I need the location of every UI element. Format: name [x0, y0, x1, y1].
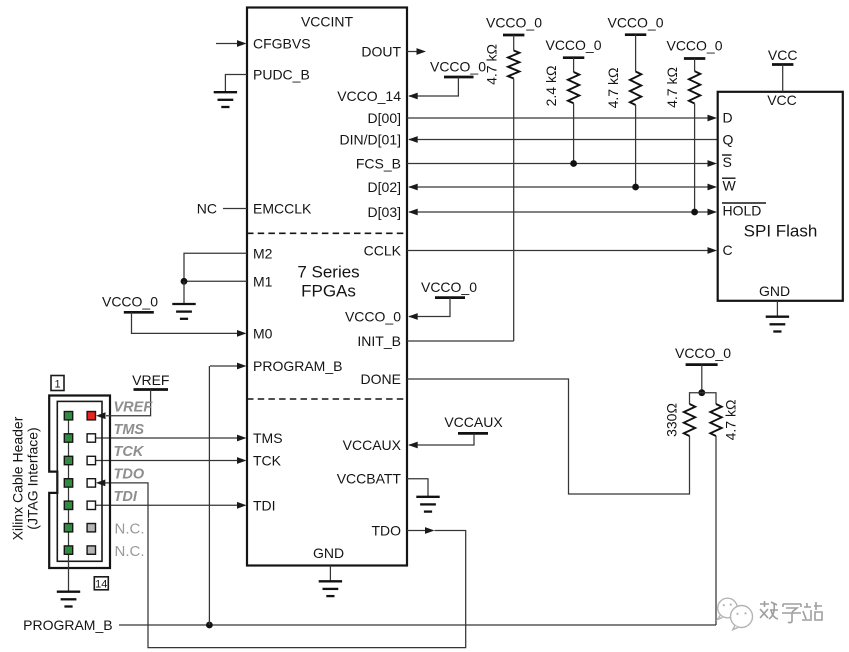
wire FCS_B	[356, 156, 717, 172]
header pin square left row 6	[64, 524, 72, 532]
SPI Flash U2 box	[718, 92, 843, 301]
svg-text:C: C	[723, 242, 733, 258]
svg-text:W: W	[723, 177, 737, 193]
supply VCC	[768, 47, 798, 92]
header pin square left row 7	[64, 546, 72, 554]
JTAG header inner box	[57, 401, 102, 561]
svg-text:VCCO_0: VCCO_0	[545, 37, 601, 53]
svg-text:M0: M0	[253, 325, 273, 341]
ground at JTAG header	[57, 592, 80, 607]
svg-text:M2: M2	[253, 245, 273, 261]
header pin square right row 6	[87, 524, 95, 532]
svg-text:VCCO_0: VCCO_0	[102, 294, 158, 310]
wire R2 to FCS_B	[573, 103, 575, 163]
svg-text:TDO: TDO	[114, 467, 145, 483]
pin GND of FPGA	[313, 545, 344, 581]
svg-text:VCCO_0: VCCO_0	[421, 279, 477, 295]
header pin square left row 5	[64, 501, 72, 509]
svg-text:TCK: TCK	[253, 453, 282, 469]
svg-text:HOLD: HOLD	[723, 202, 762, 218]
pin S with overline	[722, 154, 732, 170]
ground at VCCBATT	[416, 497, 439, 512]
svg-text:2.4 kΩ: 2.4 kΩ	[543, 66, 559, 107]
wire split to resistors	[690, 393, 717, 404]
svg-text:VCCO_0: VCCO_0	[607, 15, 663, 31]
svg-text:TMS: TMS	[253, 430, 283, 446]
svg-text:FPGAs: FPGAs	[301, 282, 356, 301]
wire R3 to D[02]	[635, 105, 637, 187]
watermark wechat icon	[718, 598, 753, 630]
svg-text:VCC: VCC	[767, 92, 797, 108]
svg-text:4.7 kΩ: 4.7 kΩ	[723, 400, 739, 441]
watermark text digital station	[760, 601, 822, 623]
svg-text:TMS: TMS	[114, 422, 145, 438]
pin HOLD with overline	[722, 202, 766, 218]
svg-text:VCCO_0: VCCO_0	[675, 345, 731, 361]
header pin square right row 5	[87, 501, 95, 509]
svg-text:VCCAUX: VCCAUX	[444, 414, 503, 430]
supply VCCO_0 for M0	[102, 294, 158, 313]
wire D[00]	[368, 110, 717, 126]
ground at SPI flash	[766, 317, 789, 332]
resistor R3 4.7 kOhm	[605, 35, 641, 109]
header pin square right row 7	[87, 546, 95, 554]
pin DOUT	[361, 44, 426, 60]
header pin square left row 4	[64, 479, 72, 487]
svg-text:SPI Flash: SPI Flash	[744, 221, 818, 240]
FPGA dashed separator upper	[247, 232, 407, 234]
supply VCCO_0 for VCCO_14	[430, 58, 486, 77]
resistor R6 4.7 kOhm	[710, 400, 738, 441]
svg-text:PUDC_B: PUDC_B	[253, 67, 310, 83]
JTAG header outer box with key notch	[49, 396, 110, 569]
supply VCCO_0 for R3	[607, 15, 663, 35]
header pin square right row 4	[87, 479, 95, 487]
svg-text:(JTAG Interface): (JTAG Interface)	[25, 427, 41, 529]
svg-text:PROGRAM_B: PROGRAM_B	[253, 358, 342, 374]
svg-text:4.7 kΩ: 4.7 kΩ	[605, 68, 621, 109]
wire M1/M2 to ground	[183, 281, 185, 304]
resistor R1 4.7 kOhm	[484, 35, 520, 85]
wire R1 to INIT_B	[513, 79, 515, 342]
wire D[02]	[368, 179, 717, 195]
resistor R4 4.7 kOhm	[664, 59, 700, 108]
pin PUDC_B	[225, 67, 309, 93]
svg-text:D[00]: D[00]	[368, 110, 401, 126]
svg-text:M1: M1	[253, 273, 273, 289]
supply VCCO_0 for R4	[666, 37, 722, 58]
svg-text:VCCO_0: VCCO_0	[430, 58, 486, 74]
ground at PUDC_B	[214, 92, 237, 107]
supply VCCO_0 for DONE/PROGRAM_B pullups	[675, 345, 731, 393]
pin EMCCLK, node NC	[197, 201, 312, 217]
pin TCK	[95, 453, 281, 469]
svg-text:DONE: DONE	[361, 371, 401, 387]
header pin square right row 2	[87, 434, 95, 442]
wire R6 to PROGRAM_B line	[715, 436, 717, 625]
junction R4/D[03]	[691, 209, 698, 216]
header pin square right row 1	[87, 412, 95, 420]
svg-text:VREF: VREF	[114, 400, 154, 416]
svg-text:330Ω: 330Ω	[664, 403, 680, 437]
svg-text:GND: GND	[313, 545, 344, 561]
supply VCCAUX	[444, 414, 503, 433]
wire INIT_B	[357, 333, 513, 349]
FPGA dashed separator lower	[247, 398, 407, 400]
pin VCCO_0 wire	[345, 298, 450, 325]
wire DONE to 330 ohm	[361, 371, 690, 494]
pin VCCBATT wire	[337, 471, 428, 497]
pin VCCAUX wire	[343, 433, 474, 453]
FPGA U1 7 Series box	[247, 8, 407, 566]
svg-text:CFGBVS: CFGBVS	[253, 36, 311, 52]
svg-text:7 Series: 7 Series	[297, 263, 359, 282]
svg-text:GND: GND	[759, 283, 790, 299]
svg-text:VCCBATT: VCCBATT	[337, 471, 402, 487]
wire CCLK to C	[364, 243, 717, 259]
wire PROGRAM_B riser	[208, 366, 210, 625]
pin TDO wire with arrow	[96, 480, 466, 648]
svg-text:D[02]: D[02]	[368, 179, 401, 195]
pin M0 wire	[132, 312, 273, 341]
svg-text:VREF: VREF	[132, 372, 169, 388]
svg-text:DOUT: DOUT	[361, 44, 401, 60]
svg-text:S: S	[723, 154, 732, 170]
resistor R5 330 Ohm	[664, 403, 696, 437]
pin CFGBVS	[216, 36, 311, 52]
svg-text:VCCO_14: VCCO_14	[337, 88, 401, 104]
wire ground column	[68, 416, 70, 592]
svg-text:D[03]: D[03]	[368, 204, 401, 220]
svg-text:4.7 kΩ: 4.7 kΩ	[664, 67, 680, 108]
svg-text:INIT_B: INIT_B	[357, 333, 401, 349]
pin W with overline	[722, 177, 737, 193]
svg-text:VCCAUX: VCCAUX	[343, 437, 402, 453]
svg-text:DIN/D[01]: DIN/D[01]	[340, 132, 401, 148]
pin M2	[184, 245, 273, 281]
header pin square right row 3	[87, 456, 95, 464]
svg-text:14: 14	[95, 578, 107, 590]
svg-text:EMCCLK: EMCCLK	[253, 201, 312, 217]
supply VREF	[96, 372, 169, 419]
header pin square left row 2	[64, 434, 72, 442]
junction R2/FCS_B	[570, 160, 577, 167]
pin PROGRAM_B	[210, 358, 342, 374]
supply VCCO_0 for R1	[486, 15, 542, 35]
svg-text:VCCO_0: VCCO_0	[345, 309, 401, 325]
Xilinx cable header rotated label	[10, 416, 41, 540]
svg-text:TDI: TDI	[253, 498, 276, 514]
svg-text:TDI: TDI	[114, 489, 138, 505]
svg-text:TDO: TDO	[371, 523, 401, 539]
supply VCCO_0 right side	[421, 279, 477, 298]
pin VCCO_14 wire	[337, 77, 458, 104]
junction M1/M2	[181, 278, 188, 285]
pin 14 marker	[94, 577, 108, 591]
junction PROGRAM_B riser	[206, 622, 213, 629]
wire PROGRAM_B horizontal	[119, 624, 716, 626]
FPGA title	[297, 263, 359, 301]
svg-text:D: D	[723, 109, 733, 125]
ground at M1/M2	[172, 304, 195, 319]
svg-text:PROGRAM_B: PROGRAM_B	[23, 617, 112, 633]
pin TMS	[95, 430, 282, 446]
wire R4 to D[03]/HOLD	[694, 104, 696, 213]
svg-text:4.7 kΩ: 4.7 kΩ	[484, 44, 500, 85]
svg-text:1: 1	[54, 379, 60, 391]
pin GND of SPI flash	[759, 283, 790, 317]
svg-text:VCCINT: VCCINT	[301, 14, 354, 30]
svg-text:TCK: TCK	[114, 444, 145, 460]
pin TDI	[95, 498, 275, 514]
junction R3/D[02]	[632, 184, 639, 191]
pin 1 marker	[51, 376, 64, 391]
svg-text:N.C.: N.C.	[115, 543, 145, 560]
svg-text:CCLK: CCLK	[364, 243, 402, 259]
wire D[03]	[368, 204, 717, 220]
pin M1	[184, 273, 273, 289]
ground at FPGA GND	[319, 581, 342, 596]
header pin square left row 1	[64, 412, 72, 420]
svg-text:Q: Q	[723, 131, 734, 147]
supply VCCO_0 for R2	[545, 37, 601, 58]
svg-text:VCC: VCC	[768, 47, 798, 63]
svg-text:FCS_B: FCS_B	[356, 156, 401, 172]
svg-text:Xilinx Cable Header: Xilinx Cable Header	[10, 416, 26, 540]
svg-text:N.C.: N.C.	[115, 521, 145, 538]
svg-text:VCCO_0: VCCO_0	[486, 15, 542, 31]
svg-text:NC: NC	[197, 201, 217, 217]
wire DIN/D[01]	[340, 132, 718, 148]
resistor R2 2.4 kOhm	[543, 58, 579, 107]
svg-text:VCCO_0: VCCO_0	[666, 37, 722, 53]
header pin square left row 3	[64, 456, 72, 464]
junction VCCO_0 split	[698, 389, 705, 396]
